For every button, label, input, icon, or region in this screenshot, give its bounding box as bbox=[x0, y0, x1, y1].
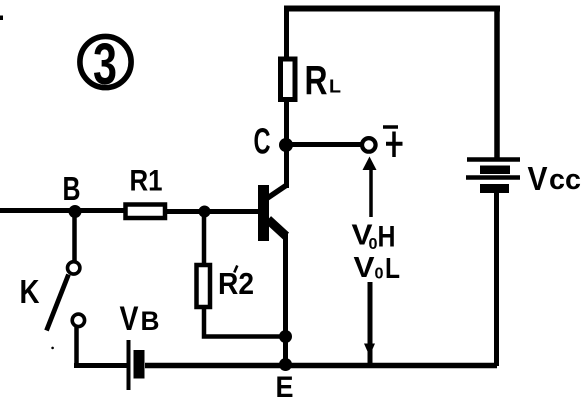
label RL bbox=[305, 57, 342, 103]
V0 arrow up head bbox=[363, 157, 377, 218]
svg-text:B: B bbox=[141, 306, 160, 336]
svg-text:R1: R1 bbox=[130, 165, 163, 198]
svg-text:3: 3 bbox=[93, 32, 117, 97]
battery VCC bbox=[466, 160, 520, 194]
wire R1 to transistor base bbox=[167, 209, 259, 214]
wire collector vertical bbox=[284, 99, 289, 188]
wire junction down to R2 bbox=[202, 211, 207, 264]
label V0L bbox=[354, 252, 401, 285]
speck bbox=[51, 347, 54, 350]
label R2 bbox=[234, 266, 237, 273]
svg-text:E: E bbox=[276, 371, 294, 401]
node B bbox=[69, 205, 82, 218]
wire emitter vertical bbox=[283, 233, 288, 366]
label Vcc bbox=[528, 160, 582, 197]
node E junction bbox=[279, 358, 292, 371]
svg-text:R: R bbox=[305, 57, 328, 103]
svg-text:cc: cc bbox=[549, 164, 581, 196]
svg-text:L: L bbox=[329, 77, 341, 97]
wire input to node B bbox=[0, 208, 124, 213]
wire node C to output terminal bbox=[291, 142, 362, 147]
wire bottom rail left of VB bbox=[74, 363, 127, 368]
svg-text:C: C bbox=[254, 121, 271, 162]
V0 arrow down head bbox=[364, 282, 375, 364]
transistor Q collector stroke bbox=[268, 186, 287, 199]
wire switch to bottom rail bbox=[74, 327, 79, 366]
svg-text:0: 0 bbox=[369, 236, 378, 253]
wire RL to top rail bbox=[284, 6, 289, 59]
resistor R1 bbox=[126, 205, 166, 219]
svg-text:H: H bbox=[378, 221, 396, 254]
wire bottom rail right of VB bbox=[145, 363, 497, 369]
svg-text:K: K bbox=[20, 273, 40, 310]
wire top rail bbox=[284, 6, 500, 12]
wire node B down to switch bbox=[72, 214, 77, 261]
switch K top contact bbox=[68, 262, 80, 274]
svg-text:B: B bbox=[63, 170, 81, 207]
wire R2 to emitter junction bbox=[204, 307, 283, 337]
junction emitter-R2 bbox=[279, 330, 292, 343]
svg-text:R2: R2 bbox=[218, 266, 254, 301]
svg-text:0: 0 bbox=[375, 266, 384, 283]
output terminal bbox=[362, 138, 376, 152]
figure label circled 3 bbox=[80, 32, 131, 97]
transistor Q emitter arrow bbox=[268, 220, 286, 237]
node C bbox=[279, 138, 293, 152]
junction base node bbox=[199, 206, 211, 218]
switch K bottom contact bbox=[72, 314, 84, 326]
polarity mark plus with overbar bbox=[383, 127, 403, 157]
label VB bbox=[120, 300, 160, 338]
wire VCC to bottom rail bbox=[494, 193, 499, 366]
resistor RL bbox=[281, 59, 296, 100]
resistor R2 bbox=[197, 265, 211, 307]
svg-text:V: V bbox=[528, 160, 548, 197]
switch K blade bbox=[47, 275, 69, 331]
label V0H bbox=[352, 220, 396, 254]
stray mark left edge bbox=[0, 16, 3, 21]
svg-text:L: L bbox=[385, 253, 400, 285]
battery VB bbox=[129, 340, 145, 390]
wire right vertical to VCC bbox=[494, 6, 500, 158]
transistor Q base bar bbox=[258, 185, 269, 241]
svg-text:V: V bbox=[120, 300, 139, 338]
svg-text:V: V bbox=[354, 252, 376, 284]
